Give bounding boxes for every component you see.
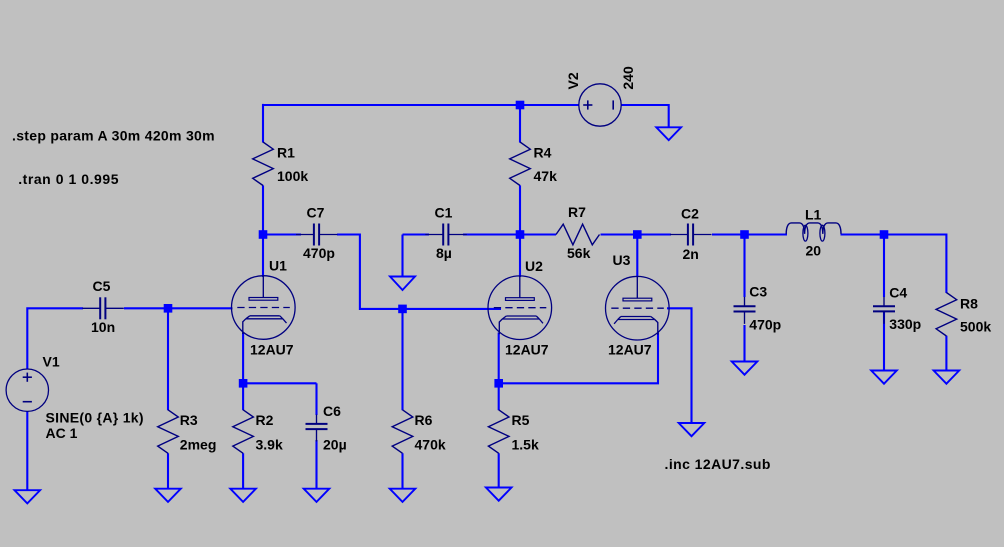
wire R7 right lead xyxy=(601,233,639,235)
voltage source V1 xyxy=(6,369,48,411)
ground R8 xyxy=(934,371,960,384)
svg-text:V1: V1 xyxy=(43,354,60,370)
wire C2 right xyxy=(712,233,745,235)
wire V2 right + down to ground xyxy=(621,105,669,128)
capacitor C3 xyxy=(744,297,746,306)
svg-text:L1: L1 xyxy=(805,207,822,223)
svg-text:R1: R1 xyxy=(277,145,295,161)
svg-text:20µ: 20µ xyxy=(323,437,347,453)
svg-text:C7: C7 xyxy=(307,205,325,221)
resistor R7 xyxy=(556,224,600,245)
svg-text:R5: R5 xyxy=(512,412,530,428)
wire U2 grid xyxy=(403,308,502,310)
wire R8 lower lead xyxy=(945,336,947,371)
wire R6 upper lead xyxy=(401,309,403,410)
ground C4 xyxy=(871,371,897,384)
svg-text:V2: V2 xyxy=(565,72,581,89)
ground U3 grid xyxy=(679,423,705,436)
svg-text:330p: 330p xyxy=(889,316,921,332)
wire C4 upper lead xyxy=(883,235,885,298)
wire C2 left xyxy=(637,233,671,235)
svg-text:.inc 12AU7.sub: .inc 12AU7.sub xyxy=(665,456,771,472)
svg-text:500k: 500k xyxy=(960,319,991,335)
wire U3 plate lead xyxy=(636,235,638,278)
resistor R8 xyxy=(936,293,957,337)
inductor L1 xyxy=(786,223,841,234)
svg-text:1.5k: 1.5k xyxy=(512,437,539,453)
ground V2 xyxy=(656,127,681,140)
resistor R5 xyxy=(488,410,509,454)
wire R7 left lead xyxy=(520,233,556,235)
svg-text:R4: R4 xyxy=(534,145,552,161)
capacitor C1 xyxy=(425,234,443,236)
capacitor C6 xyxy=(316,415,318,424)
wire L1 right xyxy=(841,233,885,235)
svg-text:.tran 0 1 0.995: .tran 0 1 0.995 xyxy=(18,171,119,187)
svg-text:C2: C2 xyxy=(681,206,699,222)
ground C3 xyxy=(732,362,758,375)
svg-text:20: 20 xyxy=(806,243,822,259)
wire R6 lower lead xyxy=(401,453,403,489)
svg-text:2meg: 2meg xyxy=(180,437,217,453)
resistor R4 xyxy=(510,142,531,186)
svg-text:470p: 470p xyxy=(303,245,335,261)
svg-text:U2: U2 xyxy=(525,258,543,274)
wire R2 lower lead xyxy=(242,453,244,489)
svg-text:8µ: 8µ xyxy=(436,245,452,261)
node U1 cathode junction xyxy=(239,379,248,388)
node C5/R3 junction xyxy=(164,304,173,313)
wire R3 upper lead xyxy=(167,308,169,410)
wire cathode to C6 xyxy=(243,382,316,384)
wire to R8 + down xyxy=(884,235,946,294)
voltage source V2 xyxy=(579,84,621,126)
svg-text:C1: C1 xyxy=(435,205,453,221)
resistor R1 xyxy=(253,142,274,186)
wire R1 upper lead xyxy=(262,104,264,143)
node C3 junction xyxy=(740,230,749,239)
ground R5 xyxy=(486,488,512,501)
svg-text:3.9k: 3.9k xyxy=(256,437,283,453)
ground R6 xyxy=(390,489,416,502)
svg-text:47k: 47k xyxy=(534,168,558,184)
svg-text:240: 240 xyxy=(620,66,636,90)
wire C7 left xyxy=(263,233,301,235)
ground R3 xyxy=(155,489,181,502)
node U2 grid junction xyxy=(398,305,407,314)
node C4 junction xyxy=(880,230,889,239)
wire R1 bottom to U1 plate xyxy=(262,185,264,277)
resistor R2 xyxy=(233,410,254,454)
node R4/C1 junction xyxy=(516,230,525,239)
resistor R3 xyxy=(158,410,179,454)
wire U3 grid right + down to ground xyxy=(667,308,692,423)
ground C1 xyxy=(390,277,415,291)
svg-text:R7: R7 xyxy=(568,204,586,220)
wire R2 upper lead xyxy=(242,383,244,410)
svg-text:R3: R3 xyxy=(180,412,198,428)
svg-text:12AU7: 12AU7 xyxy=(608,342,652,358)
wire R4 upper lead xyxy=(519,105,521,143)
svg-text:12AU7: 12AU7 xyxy=(505,342,549,358)
svg-text:C3: C3 xyxy=(749,284,767,300)
svg-text:10n: 10n xyxy=(91,319,115,335)
wire R5 lower lead xyxy=(498,453,500,488)
wire R5 upper lead xyxy=(498,383,500,410)
svg-text:U3: U3 xyxy=(613,252,631,268)
ground R2 xyxy=(230,489,256,502)
wire C4 lower lead xyxy=(883,311,885,371)
svg-text:C5: C5 xyxy=(93,278,111,294)
svg-text:C6: C6 xyxy=(323,403,341,419)
svg-text:U1: U1 xyxy=(269,258,287,274)
svg-text:470k: 470k xyxy=(415,437,446,453)
resistor R6 xyxy=(392,410,413,454)
svg-text:R2: R2 xyxy=(256,412,274,428)
wire cathode bus to U3 xyxy=(499,333,658,384)
svg-text:2n: 2n xyxy=(683,246,699,262)
wire C7 right + corner down to grid row xyxy=(337,235,403,309)
capacitor C5 xyxy=(82,307,100,309)
svg-text:AC 1: AC 1 xyxy=(46,425,78,441)
svg-text:12AU7: 12AU7 xyxy=(250,342,294,358)
svg-text:100k: 100k xyxy=(277,168,308,184)
wire C1 left xyxy=(403,233,430,235)
wire top B+ rail xyxy=(263,104,579,106)
wire C5 right to U1 grid xyxy=(124,307,233,309)
wire U2 cathode down xyxy=(498,333,500,384)
wire V1 top + to C5 xyxy=(27,308,83,369)
node top rail / R4 junction xyxy=(516,101,525,110)
capacitor C2 xyxy=(670,234,688,236)
svg-text:SINE(0 {A} 1k): SINE(0 {A} 1k) xyxy=(46,410,144,426)
svg-text:56k: 56k xyxy=(567,245,591,261)
wire C1 ground stub xyxy=(401,235,403,278)
wire C6 upper lead xyxy=(315,383,317,415)
svg-text:.step param A 30m 420m 30m: .step param A 30m 420m 30m xyxy=(12,128,215,144)
ground C6 xyxy=(304,489,330,502)
triode U3 (mirrored) xyxy=(606,276,670,340)
svg-text:C4: C4 xyxy=(889,284,907,300)
wire R3 lower lead xyxy=(167,453,169,489)
wire C1 right xyxy=(463,233,521,235)
wire C6 lower lead xyxy=(315,440,317,489)
node R1/C7 junction xyxy=(259,230,268,239)
wire U1 cathode down xyxy=(242,333,244,384)
capacitor C4 xyxy=(883,297,885,306)
wire L1 left xyxy=(745,233,788,235)
ground V1 xyxy=(15,490,41,503)
svg-text:470p: 470p xyxy=(749,316,781,332)
node U2/U3 cathode junction xyxy=(494,379,503,388)
svg-text:R8: R8 xyxy=(960,296,978,312)
node U3 plate junction xyxy=(633,230,642,239)
triode U2 xyxy=(488,276,552,340)
capacitor C7 xyxy=(296,234,314,236)
triode U1 xyxy=(231,276,295,340)
wire C3 upper lead xyxy=(743,235,745,298)
wire V1 bottom lead xyxy=(26,412,28,491)
wire C3 lower lead xyxy=(743,325,745,362)
svg-text:R6: R6 xyxy=(415,412,433,428)
wire R4 bottom to U2 plate xyxy=(519,185,521,277)
